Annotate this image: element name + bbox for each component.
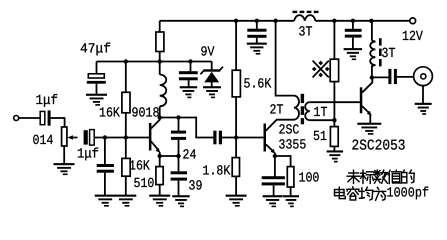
wire emitter node down to 510	[159, 156, 161, 167]
input terminal	[14, 116, 19, 121]
wire 16K upper to base node	[125, 113, 127, 138]
wire jack to ground	[422, 85, 424, 103]
zener diode 9V (cathode bar with wings)	[200, 67, 223, 75]
ground under cap 39	[172, 195, 190, 207]
wire 9V rail left end down to 47uF	[96, 62, 98, 75]
junction rail / T1 primary	[273, 19, 277, 23]
svg-text:3355: 3355	[279, 139, 307, 154]
transistor Q2 2SC3355 base bar	[264, 124, 267, 152]
svg-text:1μf: 1μf	[36, 94, 59, 109]
ground under 100	[283, 195, 299, 207]
inductor 3T collector choke	[370, 41, 375, 66]
capacitor 1000pf (Q2 emitter bypass)	[262, 176, 285, 185]
inductor 3T (series in supply rail)	[294, 15, 315, 21]
note text char 容	[347, 187, 359, 200]
bias node (secondary return)	[332, 118, 336, 122]
junction rail / collector choke	[369, 19, 373, 23]
wire cap 39 to ground	[178, 181, 180, 196]
svg-text:2SC: 2SC	[279, 124, 300, 139]
emitter node of Q1	[158, 154, 162, 158]
antenna jack center pin	[421, 74, 426, 79]
wire C1 to potentiometer top	[51, 117, 65, 127]
wire base node down to 1.8K	[235, 138, 237, 158]
wire potentiometer bottom to ground	[63, 146, 65, 164]
capacitor 1000pf (9V rail bypass)	[179, 71, 198, 80]
transformer T1 secondary winding 1T	[305, 102, 310, 120]
node junction C2 / shunt cap	[103, 135, 107, 139]
node junction bias divider / base	[124, 135, 128, 139]
ground under right bypass cap	[344, 48, 363, 60]
svg-text:9V: 9V	[201, 46, 216, 61]
note text char 数	[374, 170, 387, 183]
wire Q2 emitter bypass to ground	[273, 185, 275, 196]
wire zener to ground	[211, 82, 213, 87]
svg-text:014: 014	[33, 134, 54, 149]
note text char 的	[402, 170, 415, 183]
svg-text:12V: 12V	[402, 30, 424, 45]
wire T1 secondary top to Q3 base	[310, 101, 360, 103]
note text char 均	[360, 187, 373, 200]
collector node of Q1	[158, 115, 162, 119]
transistor Q2 collector stroke	[266, 120, 277, 131]
wire 9V rail to bypass cap	[189, 62, 191, 72]
ground under potentiometer	[54, 163, 75, 175]
capacitor 1000pf (input shunt)	[97, 164, 114, 173]
junction rail / right bypass cap	[351, 19, 355, 23]
ground under 9V bypass cap	[180, 86, 198, 98]
wire C4 to base node of Q2	[222, 137, 264, 139]
ground under 1.8K	[226, 195, 247, 207]
wire rail down to bias resistor	[333, 21, 335, 59]
wire input terminal to C1	[19, 117, 41, 119]
note text char 未	[347, 170, 360, 183]
wire 9V rail down to 16K upper	[125, 62, 127, 93]
capacitor 1000pf (middle rail bypass)	[247, 29, 266, 38]
resistor 100 emitter	[287, 167, 294, 187]
wire top supply rail left section	[160, 20, 295, 22]
ground under zener	[203, 86, 221, 98]
junction rail / 5.6K line	[234, 19, 238, 23]
wire L1 bottom to collector node	[159, 106, 161, 117]
transistor Q1 9018 base bar	[149, 123, 152, 151]
wire node down to shunt cap	[104, 138, 106, 165]
wire collector row down to cap 24	[178, 118, 180, 132]
ground under 510	[149, 195, 170, 207]
svg-text:24: 24	[183, 149, 197, 164]
capacitor C2 1uF electrolytic (solid plate)	[84, 130, 88, 144]
transformer T1 primary winding 2T	[294, 96, 299, 120]
wire rail corner down to R2	[159, 21, 161, 32]
svg-text:2T: 2T	[270, 104, 284, 119]
ground under 16K lower	[115, 195, 136, 207]
wire Q1 emitter to emitter node	[159, 152, 161, 157]
wire rail down to choke	[371, 21, 373, 41]
wire 100 to ground	[290, 187, 292, 196]
collector node of Q3	[370, 75, 374, 79]
wire top supply rail right section	[315, 20, 410, 22]
wire 510 to ground	[159, 185, 161, 196]
wire C2 to 9018 base	[94, 137, 150, 139]
base node of Q2 (5.6K/1.8K junction)	[234, 135, 238, 139]
ground under antenna jack	[415, 103, 432, 115]
capacitor output coupling 1000pf (plates)	[388, 69, 397, 84]
wire 9V rail corner down to zener	[211, 62, 213, 71]
junction rail / Q3 bias line	[332, 19, 336, 23]
capacitor C4 1000pf coupling (plates)	[213, 131, 222, 145]
ground under 51	[327, 150, 344, 162]
note text char 值	[388, 170, 401, 183]
wire 16K lower to ground	[125, 176, 127, 195]
emitter node of Q2	[273, 154, 277, 158]
wire middle bypass to ground	[256, 38, 258, 44]
svg-text:3T: 3T	[382, 47, 396, 62]
wire 1.8K to ground	[235, 176, 237, 195]
capacitor 47uF electrolytic (positive plate)	[88, 74, 104, 78]
potentiometer wiper arrow	[70, 137, 78, 139]
junction collector row / feedback cap 24	[176, 115, 180, 119]
svg-text:9018: 9018	[132, 107, 160, 122]
resistor 16K upper bias	[122, 92, 130, 113]
wire Q3 collector up to node	[371, 78, 373, 83]
svg-text:100: 100	[299, 172, 320, 187]
wire T1 secondary bottom to bias node	[310, 119, 335, 121]
wire Q3 emitter to ground	[369, 114, 371, 124]
resistor Q3 base bias (select value)	[330, 59, 338, 81]
svg-text:1μf: 1μf	[77, 148, 99, 163]
wire T1 primary bottom to Q2 collector	[276, 119, 295, 121]
resistor 51	[330, 127, 338, 147]
wire 9V supply rail	[97, 61, 212, 63]
wire cap 24 to emitter row	[178, 140, 180, 172]
wire 5.6K to base node	[235, 97, 237, 138]
resistor 1.8K	[232, 158, 239, 177]
wire right bypass to ground	[352, 38, 354, 49]
wire Q2 emitter to node	[274, 153, 276, 157]
wire 51 to ground	[333, 146, 335, 151]
12V terminal	[410, 18, 416, 24]
capacitor 1000pf (right rail bypass)	[345, 29, 362, 38]
svg-text:16K: 16K	[99, 107, 121, 122]
note text char 电	[335, 187, 346, 198]
note text char 为	[374, 187, 386, 200]
svg-text:51: 51	[313, 130, 327, 145]
capacitor C1 1uF electrolytic (solid plate)	[48, 110, 51, 125]
junction 9V rail / collector coil line	[158, 59, 162, 63]
wire emitter row	[160, 155, 179, 157]
capacitor C1 1uF electrolytic (box plate)	[40, 111, 45, 124]
capacitor C2 1uF electrolytic (box plate)	[90, 130, 95, 146]
wire 47uF to ground	[96, 84, 98, 95]
svg-text:2SC2053: 2SC2053	[352, 138, 406, 155]
wire bypass cap to ground	[188, 80, 190, 87]
svg-text:5.6K: 5.6K	[244, 78, 272, 93]
choke core (dashed)	[379, 38, 382, 66]
ground under input shunt cap	[95, 195, 116, 207]
svg-text:1000pf: 1000pf	[387, 186, 430, 201]
transistor Q3 collector stroke	[362, 82, 373, 93]
zener diode 9V (anode triangle)	[204, 72, 219, 83]
junction 9V rail / bypass cap	[188, 59, 192, 63]
junction 9V rail / 16K bias line	[124, 59, 128, 63]
svg-text:1T: 1T	[314, 106, 328, 121]
junction rail / middle bypass cap	[255, 19, 259, 23]
wire rail to right bypass cap	[352, 21, 354, 29]
ground under Q2 emitter bypass	[263, 195, 283, 207]
antenna jack outer ring	[414, 67, 433, 86]
wire rail to middle bypass cap	[256, 21, 258, 29]
resistor 5.6K	[232, 70, 240, 97]
wire bias resistor to bias node	[333, 82, 335, 127]
resistor 510 emitter	[156, 167, 163, 185]
wire Q1 collector row	[160, 117, 214, 138]
transistor Q3 emitter stroke with arrow	[362, 106, 369, 113]
wire R2 bottom to 9V rail	[159, 52, 161, 75]
ground under 47uF	[86, 94, 107, 106]
resistor R2 (rail to 9V node)	[156, 32, 164, 52]
note text char 标	[360, 170, 374, 183]
wire shunt cap to ground	[104, 173, 106, 196]
svg-text:510: 510	[134, 177, 155, 192]
wire base node down to 16K lower	[125, 138, 127, 159]
wire rail down to 5.6K	[235, 21, 237, 70]
capacitor 47uF electrolytic (negative plate)	[87, 81, 106, 84]
svg-text:47μf: 47μf	[80, 42, 111, 57]
wire choke to Q3 collector node	[371, 65, 373, 78]
svg-text:3T: 3T	[299, 26, 313, 41]
capacitor 39pf	[171, 171, 187, 180]
potentiometer 014 body	[62, 127, 67, 146]
wire Q2 emitter node down to bypass cap	[274, 156, 276, 177]
transformer T1 core (dashed)	[301, 94, 304, 124]
wire rail down to T1 primary top	[275, 21, 294, 96]
transistor Q2 emitter stroke with arrow	[266, 144, 273, 151]
ground under middle bypass cap	[247, 43, 267, 55]
inductor L1 (9018 collector choke)	[160, 75, 167, 107]
junction emitter row / caps 24-39	[176, 154, 180, 158]
wire Q2 emitter node to 100 resistor	[275, 155, 291, 167]
transistor Q1 9018 collector stroke	[151, 119, 160, 128]
wire Q3 collector to output cap	[372, 76, 389, 78]
transistor Q3 2SC2053 base bar	[360, 87, 363, 113]
capacitor 24pf	[171, 131, 186, 140]
svg-text:1.8K: 1.8K	[203, 165, 231, 180]
select-value mark (asterisk)	[313, 61, 329, 78]
ground under Q3 emitter	[357, 123, 381, 135]
svg-text:16K: 16K	[129, 160, 151, 175]
svg-text:39: 39	[189, 180, 203, 195]
wire output cap to antenna jack	[397, 76, 414, 78]
resistor 16K lower bias	[122, 158, 130, 176]
transistor Q1 9018 emitter stroke with arrow	[151, 141, 158, 150]
